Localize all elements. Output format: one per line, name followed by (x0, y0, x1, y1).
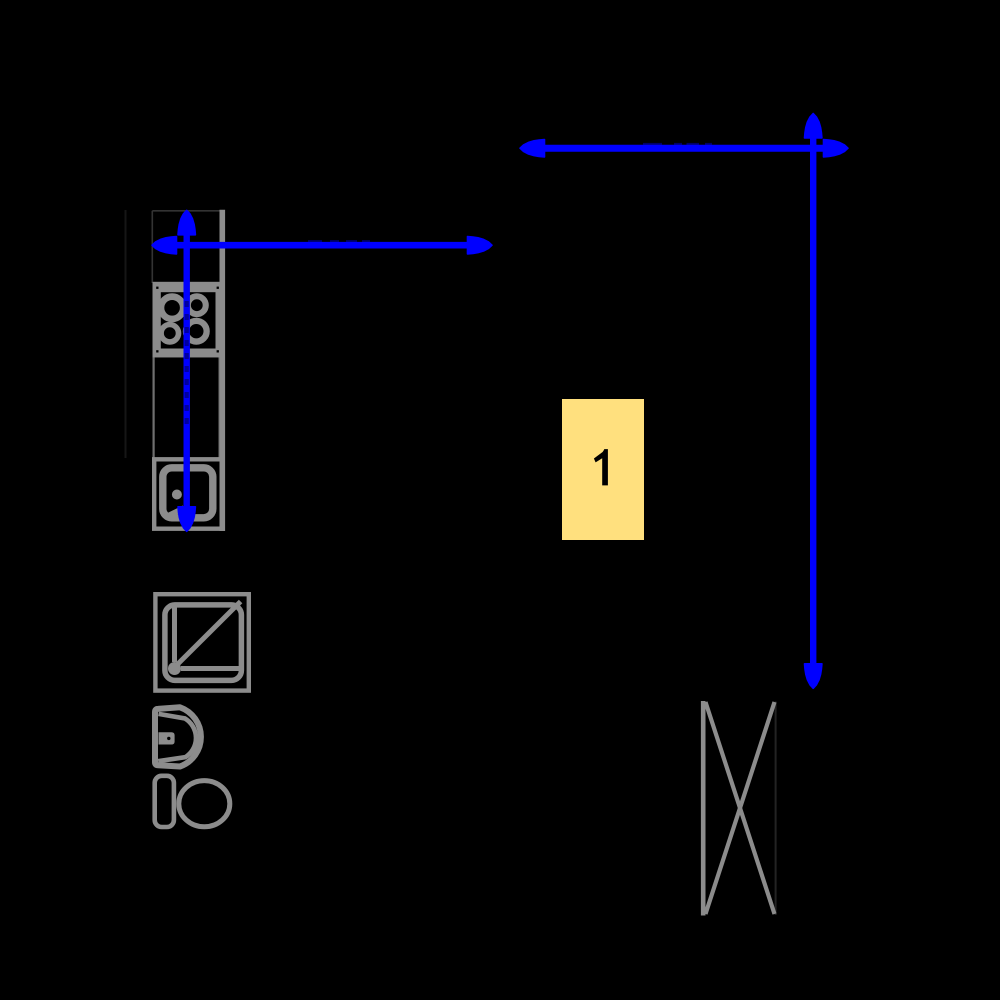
stove S1 (153, 282, 220, 358)
dimension arrow kitchen horizontal (152, 237, 492, 254)
room 1 label box (562, 399, 644, 540)
window X symbol (703, 701, 775, 916)
burner rings (161, 297, 183, 319)
counter middle cell outline (154, 356, 220, 459)
wire faint wall line left of counter (125, 210, 127, 458)
dimension arrow right vertical (805, 114, 822, 689)
dimension arrow top horizontal (520, 140, 848, 157)
shower (155, 594, 248, 690)
dim text kitchen height (dark navy dashes on line) (185, 301, 189, 431)
dimension arrow kitchen vertical (178, 210, 195, 531)
washbasin (155, 707, 201, 766)
toilet (155, 776, 230, 827)
corner pinholes (156, 287, 158, 289)
counter top cell outline (152, 211, 220, 283)
room 1 number (drawn glyph, no foot serif) (594, 449, 608, 485)
dim text kitchen width (dark navy bumps over line) (308, 240, 370, 244)
counter right thick band (220, 210, 226, 531)
sink K1 (154, 459, 222, 528)
dim text top (dark navy bumps over line) (643, 143, 712, 147)
